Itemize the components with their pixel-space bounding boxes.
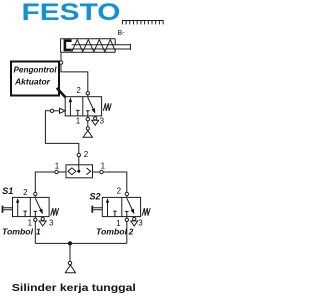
valve S2 3/2-way push button [92,192,150,226]
wire valve S1 port 1 to supply manifold [34,222,36,244]
shuttle valve right inlet port 1 node [93,171,100,173]
shuttle valve OR [55,153,103,178]
svg-text:2: 2 [128,228,134,237]
cylinder A1 port node [60,52,62,61]
valve S2 blocked port 3 (actuated box) [113,211,117,217]
shuttle valve outlet port 2 node [78,157,80,165]
distance rule [122,21,164,25]
wire shuttle valve outlet to valve V1 pilot [45,111,78,153]
svg-text:1: 1 [36,228,41,237]
svg-text:3: 3 [49,218,54,227]
svg-text:2: 2 [76,86,81,95]
valve S1 port 1 node [34,217,36,218]
svg-text:1: 1 [28,218,33,227]
valve S2 return spring [142,208,150,216]
wire shuttle right inlet to valve S2 port 2 [103,172,127,192]
svg-text:3: 3 [138,218,143,227]
compressed air source [65,261,75,272]
svg-text:3: 3 [100,116,105,125]
wire junction to air source [69,243,71,261]
cylinder A1 piston rod [72,44,131,50]
valve S1 port 3 exhaust [42,216,44,219]
svg-text:Silinder kerja tunggal: Silinder kerja tunggal [12,283,136,294]
valve V1 blocked port 3 (actuated box) [76,110,80,116]
valve V1 pneumatic pilot port 12 [60,108,66,113]
valve S1 flow path 2-3 (rest box) [35,198,41,210]
valve V1 body [65,97,101,116]
valve V1 port 3 exhaust [94,115,96,118]
valve V1 flow path 2-3 (rest box) [88,98,94,110]
valve S1 return spring [51,208,59,216]
svg-text:Pengontrol: Pengontrol [14,65,58,75]
wire cylinder port to valve V1 port 2 [61,64,88,91]
valve S1 blocked port 1 (rest box) [34,211,38,216]
valve V1 blocked port 1 (rest box) [86,111,90,116]
cylinder A1 single-acting spring return [59,39,130,64]
valve S2 blocked port 1 (rest box) [125,211,129,216]
valve S1 port 2 node [34,196,36,198]
svg-text:Aktuator: Aktuator [14,77,51,87]
svg-text:1: 1 [55,162,60,171]
valve S2 port 2 node [126,196,128,198]
valve V1 port 1 node [87,116,89,117]
valve S1 flow path 1-2 (actuated box) [17,202,19,217]
valve S2 port 1 node [126,217,128,218]
cylinder A1 piston [64,39,72,51]
svg-text:FESTO: FESTO [22,0,121,26]
cylinder A1 return spring [72,40,115,52]
annotation pointer line [57,88,69,101]
svg-text:Tombol: Tombol [96,228,128,237]
wire valve S1 port 2 to shuttle left inlet [35,172,55,192]
valve S1 push button actuator [2,206,4,213]
svg-text:1: 1 [116,219,121,228]
svg-text:Tombol: Tombol [2,228,34,237]
svg-text:2: 2 [23,188,28,197]
svg-text:S2: S2 [90,192,101,202]
svg-text:2: 2 [84,150,89,159]
valve V1 3/2-way pilot operated [50,92,111,126]
valve V1 port 2 node [87,95,89,97]
supply manifold wire [35,242,127,244]
valve S2 flow path 1-2 (actuated box) [107,202,109,217]
valve S2 port 3 exhaust [133,216,135,219]
valve S2 body [102,197,140,216]
junction supply tee [68,241,72,245]
valve S1 body [13,197,50,216]
valve S1 blocked port 3 (actuated box) [23,211,27,217]
valve S1 3/2-way push button [3,192,59,226]
valve V1 return spring [103,103,111,111]
svg-text:1: 1 [76,116,81,125]
svg-text:B-: B- [118,30,126,37]
shuttle valve right seat [86,168,90,175]
wire valve S2 port 1 to supply manifold [126,222,128,244]
compressed air source at valve V1 port 1 [83,121,92,137]
shuttle valve left inlet port 1 node [58,171,66,173]
svg-text:S1: S1 [2,186,13,196]
shuttle valve outlet junction [77,170,80,173]
valve S2 push button actuator [91,206,93,213]
svg-text:2: 2 [117,186,122,195]
svg-text:1: 1 [101,162,106,171]
annotation box Pengontrol Aktuator [11,62,59,96]
valve V1 flow path 1-2 (actuated box) [69,101,71,116]
valve S2 flow path 2-3 (rest box) [127,198,133,210]
shuttle valve ball seat [68,168,76,175]
